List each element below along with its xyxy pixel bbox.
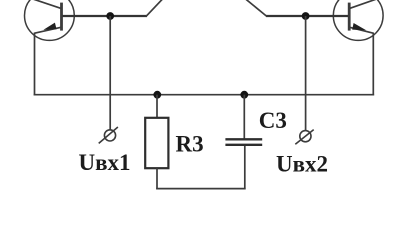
resistor R3 [145,118,168,168]
wire: VT1 base diagonal to top edge [146,0,163,16]
capacitor C3 (two plates) [225,139,262,145]
transistor VT1 (left, body circle cut at top edge) [25,0,75,40]
input terminal Uвх1 (circle with slash) [99,127,118,143]
svg-text:C3: C3 [259,108,287,133]
wire: R3 top lead [156,95,158,119]
node C: rail to R3 [153,91,161,99]
wire: VT1 emitter down [34,33,36,96]
svg-text:Uвх2: Uвх2 [276,151,328,176]
wire: VT1 base lead [63,15,148,17]
node B: VT2 base / input 2 junction [302,12,310,20]
wire: C3 bottom lead [244,145,246,189]
wire: C3 top lead [243,95,245,140]
svg-text:Uвх1: Uвх1 [79,150,131,175]
wire: input 2 vertical (node B down to terminal) [305,16,307,131]
transistor VT2 (right, body circle cut at top edge) [333,0,383,40]
wire: VT2 base lead [266,15,348,17]
node D: rail to C3 [240,91,248,99]
input terminal Uвх2 (circle with slash) [295,130,313,145]
wire: VT2 base diagonal to top edge [245,0,267,16]
wire: bottom link (R3 bottom to C3 bottom) [156,188,245,190]
node A: VT1 base / input 1 junction [106,12,114,20]
wire: input 1 vertical (node A down to terminal) [109,16,111,130]
wire: common emitter rail [34,94,374,96]
wire: R3 bottom lead [156,168,158,189]
wire: VT2 emitter down [372,33,374,96]
svg-text:R3: R3 [176,131,204,156]
